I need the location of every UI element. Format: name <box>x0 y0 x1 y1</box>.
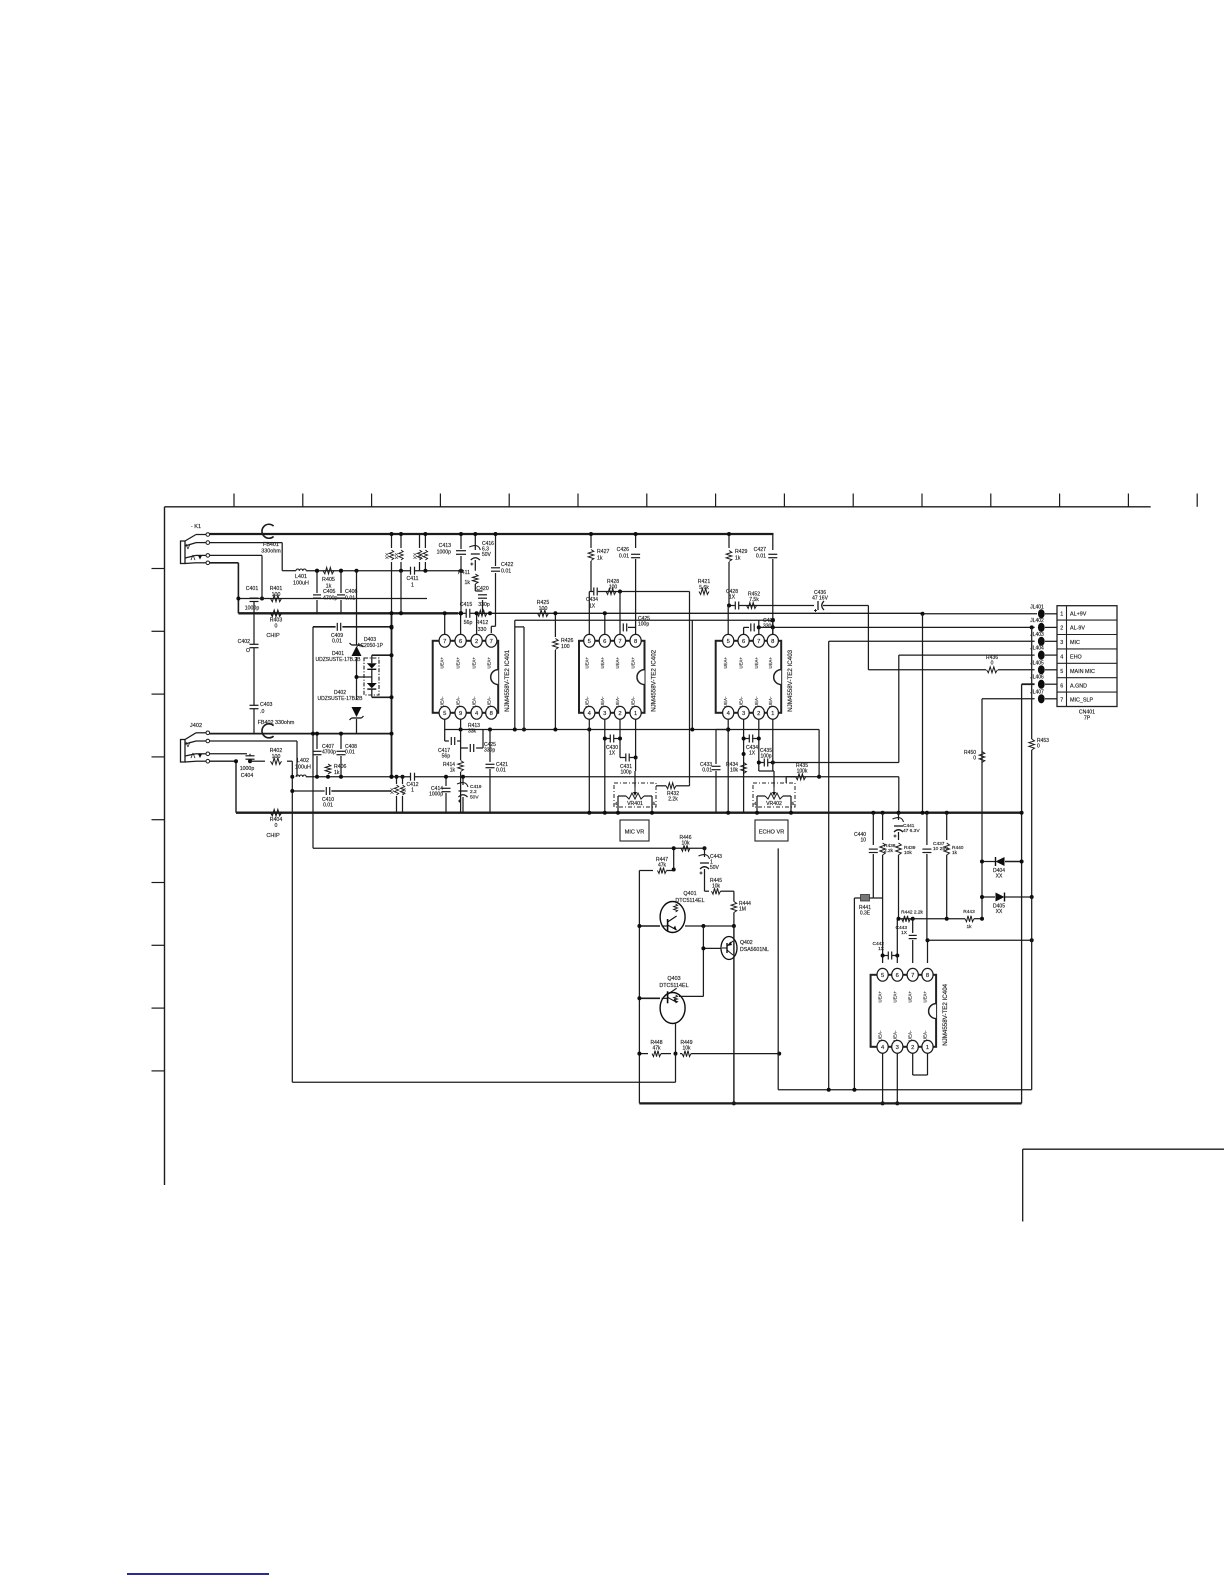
svg-text:UEA-: UEA- <box>892 1030 897 1041</box>
svg-text:0.01: 0.01 <box>702 768 712 774</box>
resistor R445 <box>705 878 734 894</box>
capacitor C422 <box>491 532 514 633</box>
wire net848 <box>313 847 705 849</box>
resistor R449 <box>680 1040 781 1057</box>
svg-text:1000p: 1000p <box>245 606 260 612</box>
svg-text:C405: C405 <box>323 589 336 595</box>
svg-text:DTC5114E​L: DTC5114E​L <box>675 898 704 904</box>
svg-text:56p: 56p <box>442 754 451 760</box>
wire J401 sleeve <box>210 563 239 599</box>
svg-text:2: 2 <box>757 711 760 717</box>
svg-text:C415: C415 <box>460 602 473 608</box>
wire row1 vert <box>922 614 924 812</box>
svg-text:50V: 50V <box>470 794 479 800</box>
wire main bus A <box>238 612 458 614</box>
svg-text:MAIN MIC: MAIN MIC <box>1070 669 1095 675</box>
node L401-C413 <box>459 569 463 573</box>
svg-text:C442: C442 <box>873 941 885 947</box>
wire IC403 pin3 down <box>742 719 746 813</box>
resistor R428 <box>606 579 622 595</box>
svg-text:0: 0 <box>1037 744 1040 750</box>
svg-text:C401: C401 <box>246 586 259 592</box>
svg-text:XX: XX <box>996 909 1003 915</box>
wire q403 collector <box>679 946 705 996</box>
svg-text:6: 6 <box>742 639 745 645</box>
wire IC404 pin2-1 link <box>913 1053 928 1075</box>
capacitor C403 <box>250 688 273 734</box>
svg-text:MIC: MIC <box>1070 640 1080 646</box>
svg-text:1X: 1X <box>589 603 596 609</box>
wire main bus B <box>474 612 923 614</box>
svg-text:UEA+: UEA+ <box>878 991 883 1003</box>
svg-text:UEA-: UEA- <box>768 696 773 707</box>
svg-text:- K1: - K1 <box>191 524 201 530</box>
wire chip drop <box>311 627 315 849</box>
wire row5 <box>868 606 1034 670</box>
label CHIP upper <box>266 633 280 639</box>
resistor R438 <box>880 813 896 898</box>
resistor R413 <box>468 723 480 735</box>
svg-text:0.01: 0.01 <box>332 639 342 645</box>
resistor R446 <box>680 835 707 851</box>
svg-text:0: 0 <box>275 623 278 629</box>
wire W3 <box>238 598 427 600</box>
wire net620b <box>691 620 693 729</box>
svg-text:R411: R411 <box>458 570 470 576</box>
wire net776 <box>306 776 806 778</box>
svg-text:5: 5 <box>727 639 730 645</box>
svg-text:C406: C406 <box>345 589 358 595</box>
svg-text:0.01: 0.01 <box>756 553 766 559</box>
wire q-left rail <box>638 871 640 1104</box>
capacitor C416 <box>469 532 494 571</box>
wire q403 base <box>637 996 660 1000</box>
resistor R426 <box>553 611 574 728</box>
svg-text:NJM4558V-TE2 IC404: NJM4558V-TE2 IC404 <box>942 983 949 1045</box>
svg-text:UEA+: UEA+ <box>584 657 589 669</box>
bottom left blue rule <box>127 1573 269 1575</box>
resistor R442 <box>901 910 923 922</box>
resistor R439 <box>896 843 916 919</box>
svg-text:NJM4558V-TE2 IC402: NJM4558V-TE2 IC402 <box>651 649 658 711</box>
resistor R435 <box>786 763 899 813</box>
svg-text:1: 1 <box>411 582 414 588</box>
wire top bus <box>210 533 774 535</box>
wire long left <box>292 1081 675 1083</box>
svg-text:UEA+: UEA+ <box>754 657 759 669</box>
svg-text:0.01: 0.01 <box>496 768 506 774</box>
svg-text:1k: 1k <box>597 555 603 561</box>
svg-text:UEA-: UEA- <box>615 696 620 707</box>
svg-text:100uH: 100uH <box>295 764 311 770</box>
wire row2 <box>759 618 1035 629</box>
label FB402 <box>258 720 295 726</box>
svg-text:1000p: 1000p <box>437 549 452 555</box>
svg-text:5.6k: 5.6k <box>699 585 709 591</box>
wire IC401 pin3 up <box>475 611 479 635</box>
svg-text:1: 1 <box>634 711 637 717</box>
svg-text:C403: C403 <box>260 702 273 708</box>
wire IC402 pin1 down <box>635 719 637 758</box>
svg-text:MIC VR: MIC VR <box>625 830 645 836</box>
wire IC404 pin4 down <box>881 1053 885 1105</box>
svg-text:R405: R405 <box>322 577 335 583</box>
wire 391 drop <box>390 571 394 779</box>
svg-text:0.01: 0.01 <box>501 568 511 574</box>
svg-text:0.01: 0.01 <box>323 803 333 809</box>
capacitor C442 <box>873 941 900 960</box>
resistor R448 <box>637 1040 671 1057</box>
svg-text:UEA+: UEA+ <box>600 657 605 669</box>
svg-text:50V: 50V <box>710 865 720 871</box>
wire J401 tip <box>210 555 263 597</box>
svg-text:100: 100 <box>561 644 570 650</box>
svg-text:UEA-: UEA- <box>923 1030 928 1041</box>
resistor R440 <box>944 813 964 919</box>
capacitor C410 <box>290 775 393 809</box>
label CHIP lower <box>266 833 280 839</box>
svg-text:O: O <box>246 648 250 654</box>
svg-text:4: 4 <box>615 801 618 807</box>
svg-text:2: 2 <box>475 639 478 645</box>
wire net620 <box>515 618 775 731</box>
wire IC402 pin6 up <box>603 611 607 634</box>
svg-text:7: 7 <box>443 639 446 645</box>
svg-text:UEA-: UEA- <box>754 696 759 707</box>
svg-text:MIC_SLP: MIC_SLP <box>1070 698 1093 704</box>
resistor R447 <box>639 857 675 874</box>
wire IC404 pin3 down <box>895 1053 899 1105</box>
svg-text:8: 8 <box>926 973 929 979</box>
potentiometer VR402 (ECHO VR) <box>753 771 795 815</box>
svg-text:C426: C426 <box>617 547 630 553</box>
label ECHO VR box <box>755 820 788 841</box>
wire net605 <box>727 604 814 608</box>
svg-text:UEA-: UEA- <box>631 696 636 707</box>
svg-text:1X: 1X <box>878 946 885 952</box>
resistor R414 <box>443 748 463 813</box>
svg-text:1: 1 <box>926 1045 929 1051</box>
wire row1 to JL401 <box>921 612 1038 616</box>
wire row4 <box>899 655 1035 762</box>
svg-text:UEA+: UEA+ <box>892 991 897 1003</box>
wire q401 collector <box>685 924 736 928</box>
wire d-net <box>355 653 394 699</box>
svg-text:4: 4 <box>1060 655 1063 661</box>
svg-text:C419: C419 <box>470 784 482 790</box>
svg-text:AL+9V: AL+9V <box>1070 611 1087 617</box>
resistor R443 <box>963 909 984 930</box>
svg-text:6: 6 <box>603 639 606 645</box>
svg-text:Λ: Λ <box>191 555 196 562</box>
svg-text:DSA5601​NL: DSA5601​NL <box>740 947 769 953</box>
svg-text:UEA-: UEA- <box>878 1030 883 1041</box>
svg-text:1000p: 1000p <box>240 766 255 772</box>
svg-text:0: 0 <box>973 756 976 762</box>
wire J401 ring <box>210 543 283 571</box>
svg-text:UEA+: UEA+ <box>723 657 728 669</box>
wire IC402 pin2 down <box>619 719 621 758</box>
node bus drops <box>390 532 428 573</box>
svg-text:C437: C437 <box>933 841 945 847</box>
transistor Q403 (DTC5114E) <box>659 976 688 1024</box>
svg-text:UEA+: UEA+ <box>923 991 928 1003</box>
svg-text:UDZSUSTE-17B.2B: UDZSUSTE-17B.2B <box>315 657 361 663</box>
wire net620 drop <box>689 592 691 784</box>
wire J402 sleeve <box>210 759 239 813</box>
svg-text:2: 2 <box>618 711 621 717</box>
capacitor C437 <box>922 813 949 941</box>
svg-text:C422: C422 <box>501 562 514 568</box>
svg-text:10: 10 <box>860 838 866 844</box>
svg-text:0.01: 0.01 <box>619 553 629 559</box>
svg-text:100k: 100k <box>797 769 808 775</box>
svg-text:CHIP: CHIP <box>266 633 280 639</box>
capacitor C411 <box>406 567 418 589</box>
capacitor C426 <box>617 532 641 634</box>
wire bottom bus <box>639 1102 1021 1104</box>
svg-text:100: 100 <box>539 606 548 612</box>
svg-text:100: 100 <box>609 585 618 591</box>
connector J401 (input jack) <box>181 524 210 565</box>
wire lower bus <box>236 812 1022 814</box>
wire IC403 pin4 down <box>726 719 730 815</box>
svg-text:47k: 47k <box>658 863 667 869</box>
ferrite bead FB401 <box>261 524 281 554</box>
svg-text:R443: R443 <box>963 909 975 915</box>
node row2 branch <box>1030 625 1034 629</box>
resistor R432b <box>747 592 761 609</box>
wire IC401 pin6 down <box>460 719 462 730</box>
svg-text:XX: XX <box>394 553 399 559</box>
capacitor C409 <box>313 623 394 645</box>
wire IC403 pin8 up <box>728 606 773 635</box>
svg-text:330ohm: 330ohm <box>261 548 281 554</box>
svg-text:UDZSUSTE-17B.2B: UDZSUSTE-17B.2B <box>317 696 363 702</box>
wire pin6 up <box>896 919 898 963</box>
svg-text:JL402: JL402 <box>1030 618 1044 624</box>
svg-text:C411: C411 <box>406 576 418 582</box>
svg-text:UEA+: UEA+ <box>472 657 477 669</box>
svg-text:XX: XX <box>996 874 1003 880</box>
resistor R405 <box>322 568 335 590</box>
svg-text:ECHO VR: ECHO VR <box>759 830 785 836</box>
connector J402 (input jack) <box>181 723 210 763</box>
top ruler ticks <box>234 494 1197 507</box>
wire net918 <box>897 917 966 921</box>
svg-text:8: 8 <box>771 639 774 645</box>
svg-text:7: 7 <box>490 639 493 645</box>
svg-text:5: 5 <box>881 973 884 979</box>
capacitor C428 <box>726 589 739 610</box>
svg-text:5: 5 <box>792 801 795 807</box>
svg-text:2.2k: 2.2k <box>668 797 678 803</box>
svg-text:1: 1 <box>1060 611 1063 617</box>
svg-text:Q401: Q401 <box>683 891 696 897</box>
wire q402 rail <box>732 926 736 1105</box>
svg-text:1: 1 <box>771 711 774 717</box>
svg-text:Q402: Q402 <box>740 940 753 946</box>
svg-text:1k: 1k <box>465 580 471 586</box>
svg-text:L402: L402 <box>297 758 309 764</box>
svg-text:1X: 1X <box>901 930 908 936</box>
border frame top <box>165 506 1151 508</box>
svg-text:UEA+: UEA+ <box>615 657 620 669</box>
svg-text:UEA-: UEA- <box>584 696 589 707</box>
resistor R412 <box>476 610 492 633</box>
svg-text:AL-9V: AL-9V <box>1070 626 1085 632</box>
potentiometer VR401 (MIC VR) <box>614 771 656 815</box>
svg-text:7: 7 <box>618 639 621 645</box>
wire net591 <box>589 592 689 635</box>
capacitor C415 series <box>458 602 474 626</box>
svg-text:NJM4558V-TE2 IC403: NJM4558V-TE2 IC403 <box>787 649 794 711</box>
capacitor C412b <box>407 773 419 794</box>
svg-text:4: 4 <box>754 801 757 807</box>
resistor vertical FB407 <box>390 775 399 813</box>
resistor R427 <box>588 532 609 592</box>
svg-text:UEA-: UEA- <box>472 696 477 707</box>
svg-text:UEA+: UEA+ <box>440 657 445 669</box>
svg-text:33k: 33k <box>468 729 477 735</box>
svg-text:UEA-: UEA- <box>486 696 491 707</box>
svg-text:6: 6 <box>896 973 899 979</box>
capacitor C441 (polarized) <box>893 813 921 840</box>
wire IC402 pin4 down <box>587 719 591 815</box>
svg-text:3: 3 <box>742 711 745 717</box>
capacitor C408 <box>337 732 358 779</box>
svg-text:8: 8 <box>490 711 493 717</box>
svg-text:UEA+: UEA+ <box>739 657 744 669</box>
op-amp IC401 (NJM4558V-TE2) <box>433 634 512 719</box>
svg-text:10k: 10k <box>904 850 912 856</box>
capacitor C434 <box>742 735 761 757</box>
svg-text:3: 3 <box>1060 640 1063 646</box>
capacitor C427 <box>754 534 778 634</box>
wire 401 drop <box>399 571 403 616</box>
svg-text:R429: R429 <box>735 549 748 555</box>
svg-text:4700p: 4700p <box>322 750 336 756</box>
capacitor C407 <box>313 732 337 779</box>
svg-text:NJM4558V-TE2 IC401: NJM4558V-TE2 IC401 <box>504 649 511 711</box>
bottom right frame corner <box>1023 1149 1224 1221</box>
svg-text:100: 100 <box>272 754 281 760</box>
svg-text:CHIP: CHIP <box>266 833 280 839</box>
svg-text:5: 5 <box>653 801 656 807</box>
resistor R434 <box>726 762 746 774</box>
svg-text:C434: C434 <box>586 597 598 603</box>
wire q402 base path <box>703 926 721 948</box>
svg-text:UEA+: UEA+ <box>631 657 636 669</box>
svg-text:7: 7 <box>757 639 760 645</box>
resistor R453 <box>1029 627 1049 897</box>
resistor vertical FB406 <box>418 534 427 571</box>
capacitor C417 <box>438 730 461 760</box>
wire r447 up <box>672 846 676 869</box>
chip resistor R441 <box>854 895 873 917</box>
svg-text:10k: 10k <box>681 841 690 847</box>
svg-text:1X: 1X <box>749 751 756 757</box>
svg-text:10 25V: 10 25V <box>933 846 949 852</box>
svg-text:UEA-: UEA- <box>723 696 728 707</box>
left ruler ticks <box>152 569 165 1071</box>
capacitor C429 <box>744 618 776 634</box>
svg-text:47k: 47k <box>652 1046 661 1052</box>
resistor R444 <box>731 891 751 926</box>
wire IC401 pin2 up <box>459 611 463 635</box>
wire J402 ring <box>210 741 298 777</box>
capacitor C443 (polarized) <box>699 848 723 891</box>
resistor R406 <box>325 764 346 779</box>
wire J402 bus <box>210 732 394 736</box>
resistor vertical FB408 <box>400 775 406 813</box>
svg-text:A.GND: A.GND <box>1070 683 1087 689</box>
capacitor C443b <box>896 919 917 963</box>
svg-text:UEA+: UEA+ <box>486 657 491 669</box>
svg-text:UEA-: UEA- <box>739 696 744 707</box>
svg-text:0.01: 0.01 <box>345 750 355 756</box>
svg-text:10k: 10k <box>730 768 739 774</box>
capacitor C423 <box>461 730 497 754</box>
svg-text:7: 7 <box>911 973 914 979</box>
capacitor C433 <box>700 730 728 813</box>
svg-text:100: 100 <box>272 592 281 598</box>
svg-text:UEA+: UEA+ <box>908 991 913 1003</box>
wire drop292 <box>291 761 293 1082</box>
svg-text:100p: 100p <box>638 622 649 628</box>
svg-text:1k: 1k <box>952 850 958 856</box>
transistor Q402 (DSA5601) <box>721 937 769 960</box>
capacitor C436 (polarized) <box>812 590 868 612</box>
zener D402 <box>317 690 363 734</box>
capacitor C404 <box>240 754 255 779</box>
svg-text:8: 8 <box>634 639 637 645</box>
node bus joints <box>871 811 1023 815</box>
svg-text:V: V <box>186 742 191 749</box>
svg-text:1k: 1k <box>966 924 972 930</box>
capacitor C406 <box>337 569 358 614</box>
svg-text:UEA-: UEA- <box>456 696 461 707</box>
wire L401 node <box>306 569 461 573</box>
svg-text:C413: C413 <box>439 543 452 549</box>
svg-text:1X: 1X <box>609 751 616 757</box>
diode D404 <box>980 857 1024 880</box>
resistor R436 <box>986 655 998 673</box>
capacitor C401 <box>245 586 264 612</box>
transistor Q401 (DTC5114E) <box>660 891 705 933</box>
wire IC401 pin1 up <box>443 611 447 635</box>
border frame left <box>164 507 166 1185</box>
svg-text:JL401: JL401 <box>1030 604 1044 610</box>
zener D401 <box>315 571 363 700</box>
svg-text:50V: 50V <box>482 552 492 558</box>
svg-text:UEA-: UEA- <box>600 696 605 707</box>
svg-text:C427: C427 <box>754 547 767 553</box>
svg-text:UEA+: UEA+ <box>456 657 461 669</box>
resistor R425 <box>537 600 550 617</box>
svg-text:6: 6 <box>1060 683 1063 689</box>
svg-text:2.2k: 2.2k <box>884 848 894 854</box>
svg-text:10k: 10k <box>712 884 721 890</box>
svg-text:6: 6 <box>459 639 462 645</box>
svg-text:EHO: EHO <box>1070 655 1082 661</box>
resistor R429 <box>726 532 747 606</box>
svg-text:47 16V: 47 16V <box>812 595 829 601</box>
svg-text:2: 2 <box>911 1045 914 1051</box>
resistor R432 <box>656 783 690 803</box>
resistor R403 <box>270 610 283 629</box>
capacitor C434a <box>586 588 598 610</box>
